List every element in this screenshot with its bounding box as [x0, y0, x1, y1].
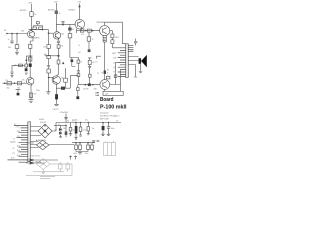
svg-text:2SA970: 2SA970: [34, 36, 40, 39]
svg-text:1N4004: 1N4004: [35, 161, 41, 163]
svg-text:10u: 10u: [92, 128, 95, 130]
svg-text:22: 22: [97, 73, 99, 75]
svg-text:47u: 47u: [85, 119, 88, 121]
svg-text:1k: 1k: [92, 39, 94, 41]
svg-text:Board: Board: [100, 97, 114, 103]
svg-text:1-BOOT: 1-BOOT: [53, 109, 59, 111]
svg-text:1k: 1k: [34, 14, 36, 16]
svg-text:D3: D3: [72, 29, 74, 31]
svg-text:D7 +: D7 +: [72, 121, 75, 123]
svg-text:GROUP: GROUP: [40, 122, 47, 124]
svg-text:560: 560: [17, 87, 20, 89]
svg-text:4.8-6.3 V DC: 4.8-6.3 V DC: [30, 156, 41, 158]
svg-text:BD139: BD139: [84, 88, 89, 90]
svg-text:1k: 1k: [107, 72, 109, 74]
svg-text:BZX85C: BZX85C: [48, 10, 55, 12]
svg-text:ALARM 12V: ALARM 12V: [36, 139, 47, 142]
svg-text:100n: 100n: [72, 129, 76, 131]
svg-text:100n: 100n: [36, 90, 40, 92]
svg-text:LS+: LS+: [113, 62, 116, 64]
svg-text:560: 560: [7, 87, 10, 89]
svg-text:10k: 10k: [21, 31, 24, 33]
svg-text:680: 680: [44, 54, 47, 56]
svg-text:D1: D1: [55, 129, 57, 131]
svg-text:33: 33: [101, 73, 103, 75]
svg-text:CT: CT: [13, 138, 15, 140]
svg-text:47: 47: [81, 62, 83, 64]
svg-text:2SC5200: 2SC5200: [97, 22, 106, 24]
svg-text:1k: 1k: [78, 45, 80, 47]
svg-text:10: 10: [107, 75, 109, 77]
svg-text:10: 10: [58, 124, 60, 126]
svg-text:0R22: 0R22: [115, 37, 119, 39]
svg-text:1u: 1u: [8, 39, 10, 41]
svg-text:1uH: 1uH: [95, 95, 99, 97]
svg-text:10: 10: [96, 61, 98, 63]
svg-text:100: 100: [92, 62, 95, 64]
svg-text:100n: 100n: [85, 153, 89, 155]
svg-text:P-100 mkII: P-100 mkII: [100, 105, 127, 111]
svg-text:4k7: 4k7: [107, 69, 110, 71]
svg-text:F1: F1: [14, 124, 16, 126]
svg-text:ESP 1998: ESP 1998: [100, 119, 108, 121]
svg-text:27k: 27k: [61, 45, 64, 47]
svg-text:47k: 47k: [8, 47, 11, 49]
svg-text:100: 100: [34, 94, 37, 96]
svg-text:47k: 47k: [81, 34, 84, 36]
svg-text:4k7: 4k7: [78, 52, 81, 54]
svg-text:Rod Elliott / Phil Allison: Rod Elliott / Phil Allison: [100, 115, 119, 118]
svg-text:+75V: +75V: [28, 2, 33, 4]
svg-text:22k: 22k: [43, 47, 46, 49]
svg-text:10k: 10k: [28, 59, 31, 61]
svg-text:100n: 100n: [111, 128, 115, 130]
svg-text:BZX85C: BZX85C: [69, 10, 76, 12]
svg-text:22k: 22k: [5, 80, 8, 82]
svg-text:100n: 100n: [73, 153, 77, 155]
svg-text:1k: 1k: [59, 13, 61, 15]
svg-text:100n: 100n: [83, 130, 87, 132]
svg-text:BZX85C: BZX85C: [20, 10, 27, 12]
svg-text:6.3V 4A: 6.3V 4A: [27, 141, 35, 144]
svg-text:4x6V8: 4x6V8: [39, 119, 44, 121]
svg-text:D5: D5: [67, 121, 69, 123]
svg-text:470u/100V: 470u/100V: [60, 112, 69, 114]
svg-text:4x22n: 4x22n: [10, 141, 15, 143]
svg-text:Design by: Design by: [100, 113, 108, 115]
